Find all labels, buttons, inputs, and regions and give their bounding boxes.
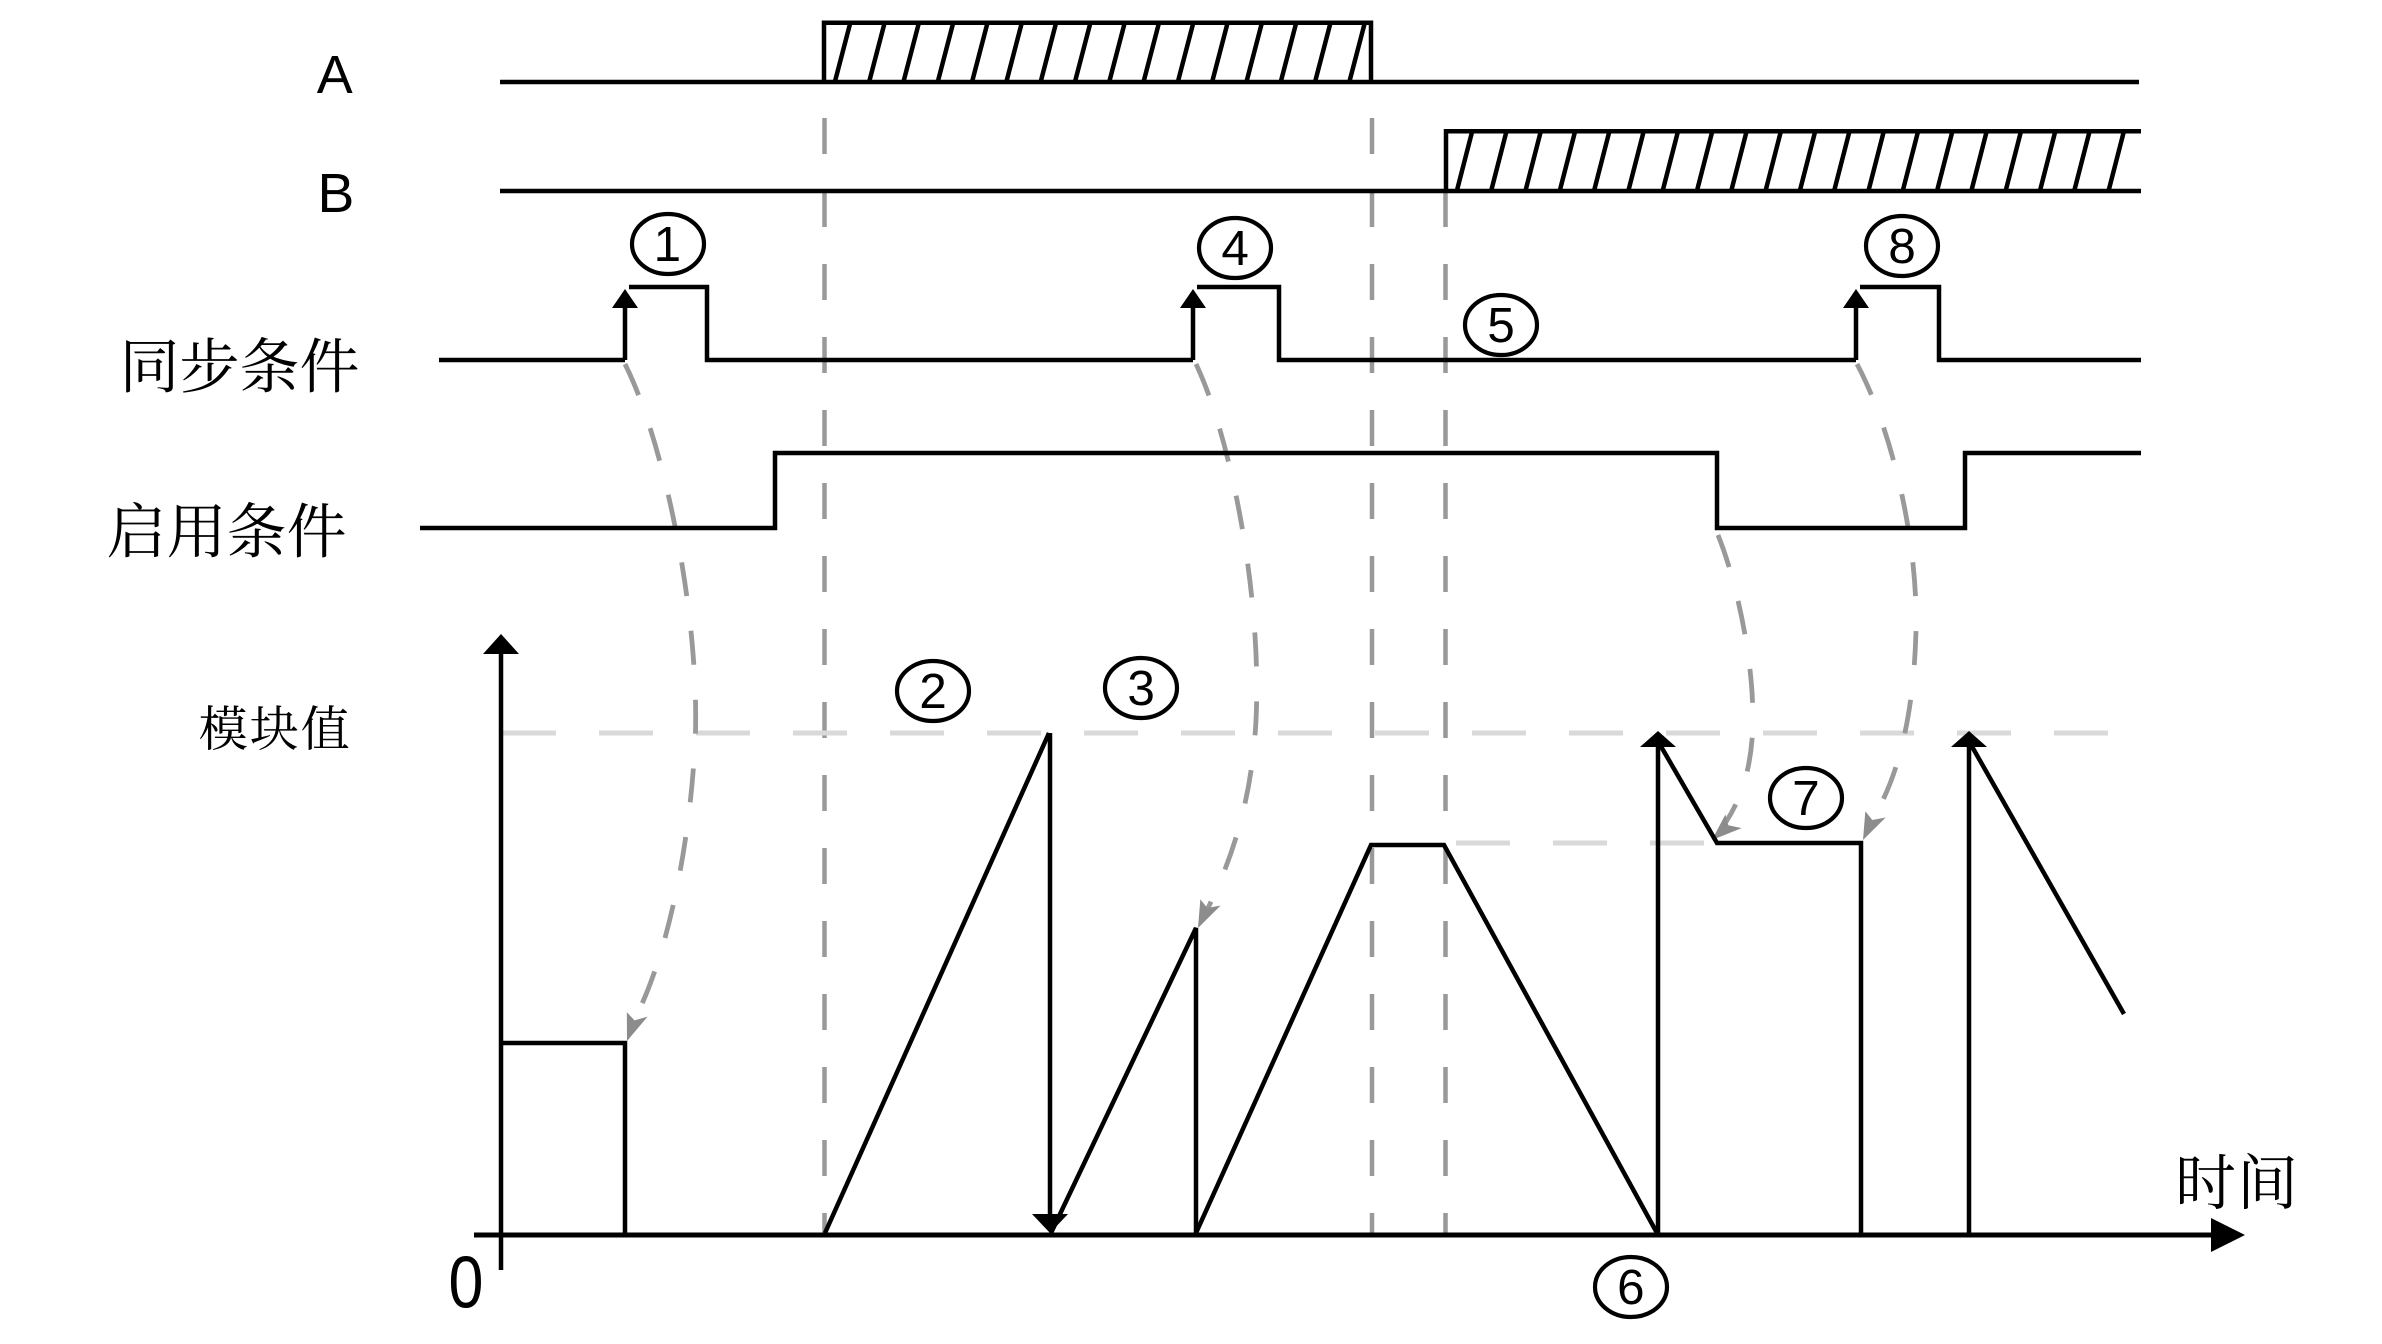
time label [2180,1154,2234,1209]
counter jump to max (up arrow 1) [1656,745,1661,1233]
marker circle 7 [1770,768,1842,828]
sync pulse 4 rising edge arrow [1180,289,1206,308]
signal B baseline [500,189,2141,194]
marker circle 8 [1866,216,1938,276]
marker circle 1 [632,214,704,274]
counter jump to max (up arrow 2) [1967,745,1972,1233]
dashed guide line t1 [822,118,827,1233]
reference curve from pulse 1 to initial value [625,364,696,1028]
reference curve from pulse 8 to plateau right corner [1857,364,1916,820]
enable condition waveform [420,453,2141,528]
dashed guide line t2 [1370,118,1375,1233]
counter final decay ramp [1970,743,2124,1014]
counter decay to hold level [1659,743,1861,1233]
signal A label [317,56,353,93]
counter reset drop with down arrow [1048,733,1053,1218]
signal A baseline [500,80,2139,85]
secondary dashed level line [1456,841,1720,846]
dashed guide line t3 [1443,191,1448,1233]
counter initial value box [502,1043,625,1233]
signal B label [322,174,351,212]
counter ramp (sawtooth 3) [1051,928,1196,1233]
marker circle 2 [897,661,969,721]
sync pulse 8 rising edge arrow [1843,289,1869,308]
marker circle 4 [1199,218,1271,278]
marker circle 6 [1595,1257,1667,1317]
sync pulse 1 rising edge arrow [612,289,638,308]
enable condition label [109,502,161,557]
marker circle 5 [1465,295,1537,355]
reference curve from enable fall to plateau left corner [1718,535,1753,822]
x-axis [474,1233,2214,1238]
y-axis [499,650,504,1270]
counter trapezoid ramp-hold-ramp [1196,845,1657,1233]
sync condition waveform [439,287,2141,360]
origin 0 label [451,1256,481,1308]
sync condition label [126,340,175,393]
module value label [200,705,247,750]
reference curve from pulse 4 to sawtooth 3 peak [1196,364,1257,912]
counter ramp to max (sawtooth 2) [825,733,1049,1233]
marker circle 3 [1105,658,1177,718]
module max dashed level line [502,731,2140,736]
